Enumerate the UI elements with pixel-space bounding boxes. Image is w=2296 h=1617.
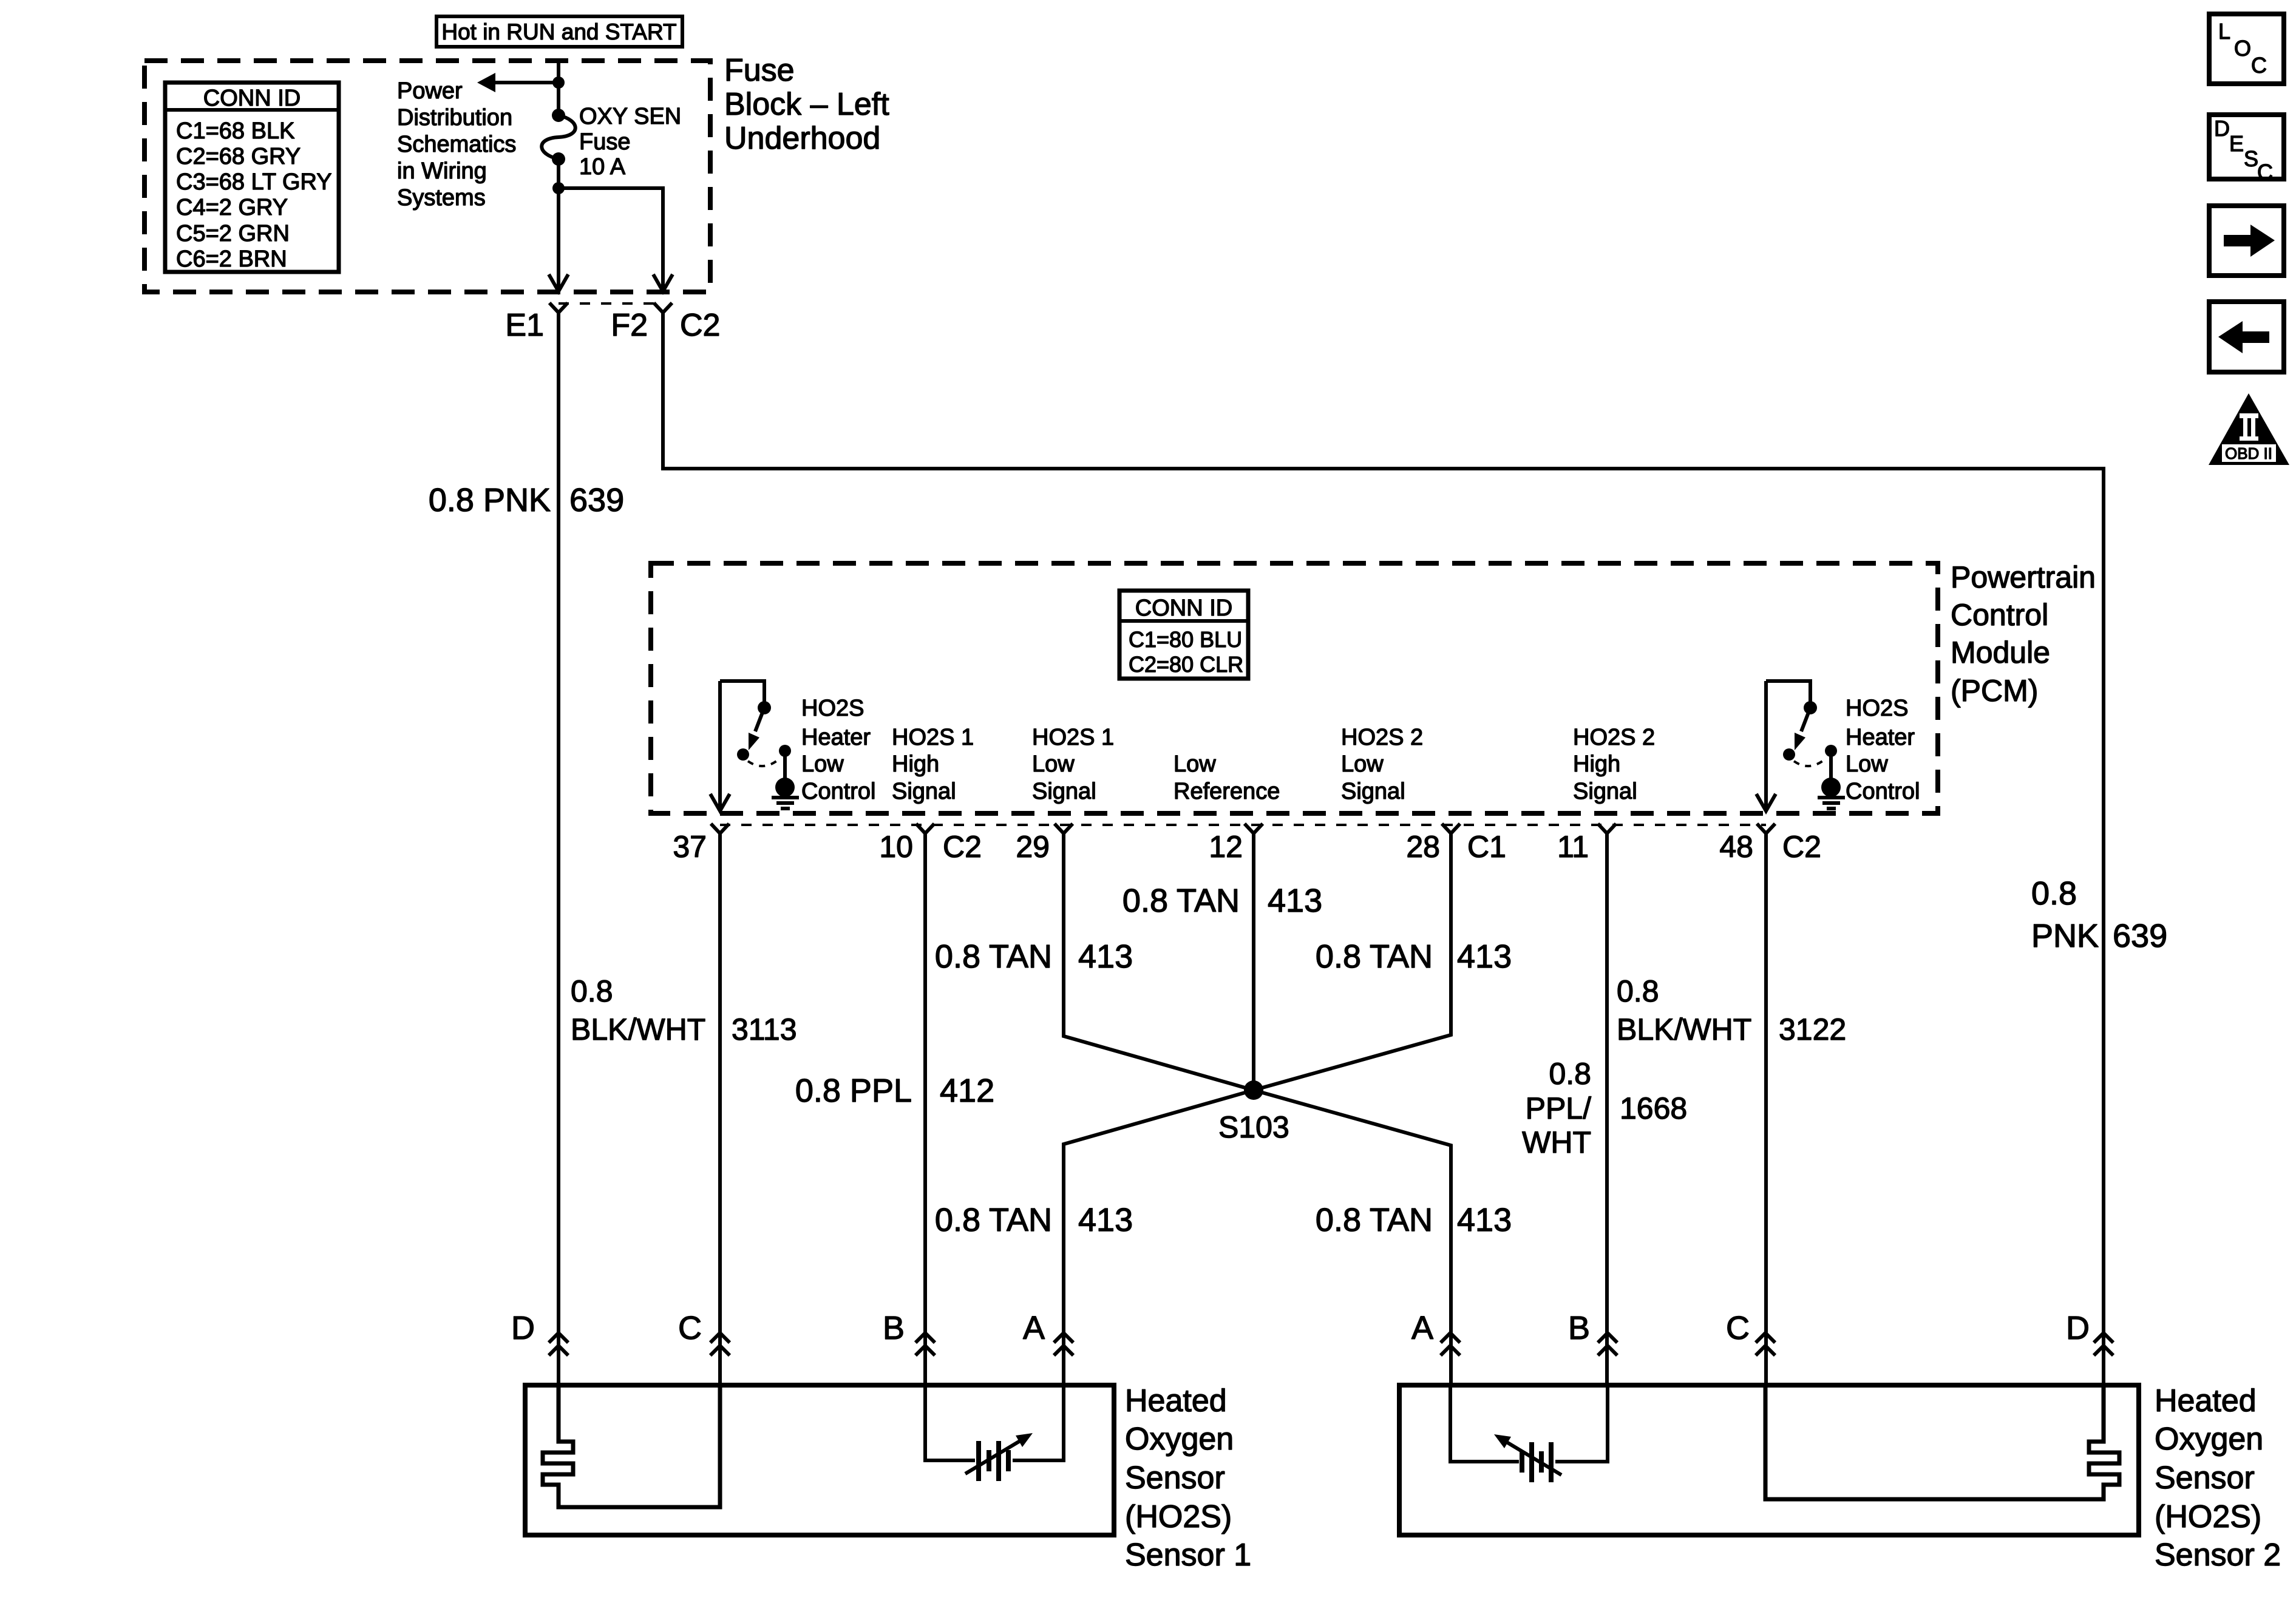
connector terminal pin 48 xyxy=(1757,824,1775,833)
wire: pin 10 down to sensor 1 pin B (0.8 PPL 412) xyxy=(923,833,927,1385)
left heater driver: top bracket xyxy=(720,681,764,703)
splice node S103 xyxy=(1244,1080,1263,1100)
arrowhead into F2 xyxy=(653,274,673,291)
svg-text:413: 413 xyxy=(1457,1202,1512,1238)
svg-text:PNK: PNK xyxy=(2031,918,2099,954)
svg-text:28: 28 xyxy=(1406,830,1440,864)
svg-text:B: B xyxy=(1568,1310,1590,1346)
svg-text:0.8 PPL: 0.8 PPL xyxy=(795,1073,912,1109)
svg-text:0.8 TAN: 0.8 TAN xyxy=(935,1202,1052,1238)
svg-text:413: 413 xyxy=(1078,938,1133,975)
svg-text:Fuse: Fuse xyxy=(579,129,630,155)
label: 0.8 PPL 412 xyxy=(795,1073,994,1109)
svg-text:Signal: Signal xyxy=(892,779,956,804)
svg-text:A: A xyxy=(1411,1310,1433,1346)
fuse OXY SEN element xyxy=(542,115,576,159)
svg-text:C1=80 BLU: C1=80 BLU xyxy=(1129,627,1242,652)
svg-text:0.8: 0.8 xyxy=(1549,1057,1591,1091)
svg-text:BLK/WHT: BLK/WHT xyxy=(1617,1012,1751,1046)
svg-text:Control: Control xyxy=(1846,779,1920,804)
wire: pin 29 down then diagonal to S103 xyxy=(1064,833,1254,1090)
svg-text:C2: C2 xyxy=(680,308,720,343)
label: 0.8 BLK/WHT 3122 xyxy=(1617,974,1846,1046)
PCM dashed box xyxy=(651,563,1938,813)
svg-text:C2=80 CLR: C2=80 CLR xyxy=(1129,652,1243,677)
svg-text:12: 12 xyxy=(1209,830,1243,864)
CONN ID table (fuse block) xyxy=(165,83,339,272)
label: 0.8 TAN 413 (pin 29) xyxy=(935,938,1133,975)
svg-text:10: 10 xyxy=(879,830,913,864)
left heater driver: output wire xyxy=(718,681,722,808)
left heater driver: travel arc (dashed) xyxy=(748,759,779,766)
icon: forward arrow box xyxy=(2209,206,2284,276)
svg-text:Low: Low xyxy=(1846,751,1888,777)
svg-text:C2: C2 xyxy=(943,830,982,864)
left heater driver: blade arrowhead xyxy=(749,733,759,750)
svg-text:Heated: Heated xyxy=(1125,1383,1227,1419)
svg-text:412: 412 xyxy=(940,1073,994,1109)
svg-text:0.8 TAN: 0.8 TAN xyxy=(935,938,1052,975)
svg-text:O: O xyxy=(2234,36,2251,61)
sensor 1 sense cell plates xyxy=(979,1441,1008,1481)
sensor 2 box xyxy=(1399,1385,2139,1535)
left heater driver: ground symbol xyxy=(772,798,799,808)
svg-text:Fuse: Fuse xyxy=(724,53,795,88)
left heater driver: ground stem xyxy=(783,751,787,779)
connector terminal E1 xyxy=(549,303,568,313)
svg-text:C: C xyxy=(2251,53,2267,78)
sensor 1 connector chevrons pin C xyxy=(710,1333,730,1355)
svg-text:48: 48 xyxy=(1719,830,1753,864)
label: Fuse Block - Left Underhood xyxy=(724,53,889,156)
connector terminal pin 29 xyxy=(1055,824,1073,833)
svg-text:C1=68 BLK: C1=68 BLK xyxy=(176,118,294,144)
right heater driver: blade arrowhead xyxy=(1795,733,1805,750)
svg-text:Distribution: Distribution xyxy=(397,105,512,131)
wire: tap to power distribution arrow xyxy=(493,81,559,84)
svg-text:Sensor 1: Sensor 1 xyxy=(1125,1537,1251,1573)
svg-text:Low: Low xyxy=(801,751,844,777)
sensor 2 sense cell leads xyxy=(1450,1385,1519,1462)
fuse block dashed box xyxy=(144,61,710,292)
svg-text:D: D xyxy=(2214,116,2230,141)
svg-text:L: L xyxy=(2218,19,2230,44)
sensor 2 variable arrow xyxy=(1507,1442,1561,1475)
left heater driver: ground contact node xyxy=(779,745,791,757)
svg-text:Schematics: Schematics xyxy=(397,132,516,157)
sensor 2 sense cell plates xyxy=(1522,1442,1551,1482)
wire: branch over to F2 terminal xyxy=(559,188,663,288)
fuse OXY SEN bottom terminal xyxy=(552,152,565,166)
svg-text:0.8 TAN: 0.8 TAN xyxy=(1316,938,1433,975)
svg-text:D: D xyxy=(2066,1310,2090,1346)
junction node at power distribution tap xyxy=(552,76,565,89)
pin label: HO2S 1 Low Signal xyxy=(1032,725,1114,804)
svg-text:PPL/: PPL/ xyxy=(1526,1091,1592,1125)
svg-text:29: 29 xyxy=(1016,830,1050,864)
svg-text:Powertrain: Powertrain xyxy=(1951,560,2096,594)
svg-text:B: B xyxy=(883,1310,905,1346)
label: 0.8 PNK 639 (right) xyxy=(2031,875,2167,954)
label: Heated Oxygen Sensor (HO2S) Sensor 2 xyxy=(2155,1383,2281,1573)
svg-text:Low: Low xyxy=(1173,751,1216,777)
svg-text:HO2S 1: HO2S 1 xyxy=(1032,725,1114,750)
connector terminal pin 10 xyxy=(916,824,934,833)
svg-text:OBD II: OBD II xyxy=(2225,444,2272,463)
right heater driver: open contact node xyxy=(1783,748,1795,761)
right heater driver: ground contact node xyxy=(1825,745,1837,757)
label: 0.8 PPL/ WHT 1668 xyxy=(1522,1057,1687,1159)
right heater driver: ground stem xyxy=(1829,751,1833,779)
right heater driver: ground ball xyxy=(1821,778,1841,797)
sensor 1 variable arrow xyxy=(965,1441,1020,1474)
connector line E1-F2 (dashed) xyxy=(559,302,663,305)
svg-text:C2: C2 xyxy=(1782,830,1821,864)
svg-text:413: 413 xyxy=(1078,1202,1133,1238)
svg-text:HO2S 1: HO2S 1 xyxy=(892,725,974,750)
pin label: HO2S 2 High Signal xyxy=(1573,725,1655,804)
svg-text:BLK/WHT: BLK/WHT xyxy=(571,1012,705,1046)
svg-text:Heated: Heated xyxy=(2155,1383,2257,1419)
connector terminal pin 37 xyxy=(711,824,729,833)
label: 0.8 TAN 413 (sensor 2 A) xyxy=(1316,1202,1512,1238)
label: Powertrain Control Module (PCM) xyxy=(1951,560,2096,708)
svg-text:Power: Power xyxy=(397,78,463,104)
sensor 1 connector chevrons pin B xyxy=(915,1333,935,1355)
svg-text:C: C xyxy=(2257,160,2273,185)
svg-text:Control: Control xyxy=(801,779,876,804)
label: OXY SEN Fuse 10 A xyxy=(579,104,681,180)
svg-text:Sensor: Sensor xyxy=(1125,1460,1225,1496)
left heater driver: open contact node xyxy=(737,748,749,761)
right heater driver: switch blade xyxy=(1801,708,1810,731)
svg-text:HO2S: HO2S xyxy=(801,696,864,721)
svg-text:Signal: Signal xyxy=(1341,779,1405,804)
arrowhead: to power distribution schematics xyxy=(477,73,495,92)
PCM connector line (dashed) xyxy=(720,824,1766,826)
left heater driver: switch blade xyxy=(755,708,764,731)
svg-text:37: 37 xyxy=(673,830,707,864)
connector terminal pin 11 xyxy=(1598,824,1616,833)
svg-text:413: 413 xyxy=(1457,938,1512,975)
svg-text:C3=68 LT GRY: C3=68 LT GRY xyxy=(176,169,332,195)
wire: pin 48 down to sensor 2 pin C (0.8 BLK/WHT 3122) xyxy=(1764,833,1768,1385)
left heater driver: top contact node xyxy=(758,701,771,714)
sensor 2 connector chevrons pin A xyxy=(1441,1333,1460,1355)
pin label: HO2S Heater Low Control (right) xyxy=(1846,696,1920,804)
icon: back arrow box xyxy=(2209,302,2284,372)
svg-text:Signal: Signal xyxy=(1573,779,1637,804)
svg-text:0.8 TAN: 0.8 TAN xyxy=(1123,883,1240,919)
wire: C2 branch across top and down to sensor 2 pin D xyxy=(663,313,2104,1385)
svg-text:C: C xyxy=(1726,1310,1750,1346)
svg-text:0.8 TAN: 0.8 TAN xyxy=(1316,1202,1433,1238)
note: Power Distribution Schematics in Wiring Systems xyxy=(397,78,516,211)
svg-text:1668: 1668 xyxy=(1620,1091,1687,1125)
sensor 2 heater element and return to pin C xyxy=(1765,1385,2119,1499)
svg-text:C4=2 GRY: C4=2 GRY xyxy=(176,195,288,220)
svg-text:Hot in RUN and START: Hot in RUN and START xyxy=(441,19,676,44)
sensor 1 sense cell leads xyxy=(925,1385,975,1460)
icon: LOC box xyxy=(2209,14,2284,84)
svg-text:HO2S: HO2S xyxy=(1846,696,1908,721)
connector terminal pin 12 xyxy=(1245,824,1263,833)
svg-text:High: High xyxy=(892,751,939,777)
svg-text:S103: S103 xyxy=(1218,1110,1289,1144)
fuse OXY SEN top terminal xyxy=(552,109,565,122)
svg-text:3122: 3122 xyxy=(1779,1012,1846,1046)
connector terminal pin 28 xyxy=(1442,824,1460,833)
svg-text:Systems: Systems xyxy=(397,185,486,211)
pin label: HO2S 1 High Signal xyxy=(892,725,974,804)
junction node at F2 branch xyxy=(552,182,565,194)
svg-text:11: 11 xyxy=(1557,830,1589,864)
label: 0.8 TAN 413 (pin 12) xyxy=(1123,883,1322,919)
svg-text:Sensor: Sensor xyxy=(2155,1460,2255,1496)
wire: fuse output down to E1 xyxy=(557,159,560,288)
sensor 1 box xyxy=(525,1385,1114,1535)
svg-text:S: S xyxy=(2244,146,2258,171)
icon: OBD II triangle xyxy=(2209,393,2289,465)
sensor 2 connector chevrons pin B xyxy=(1598,1333,1617,1355)
pin label: HO2S Heater Low Control (left) xyxy=(801,696,876,804)
svg-text:0.8: 0.8 xyxy=(1617,974,1659,1008)
connector terminal F2/C2 xyxy=(654,303,672,313)
svg-text:C5=2 GRN: C5=2 GRN xyxy=(176,221,290,246)
svg-text:639: 639 xyxy=(2113,918,2167,954)
svg-text:A: A xyxy=(1023,1310,1045,1346)
wire: pin 28 down then diagonal to S103 xyxy=(1254,833,1451,1090)
svg-text:Control: Control xyxy=(1951,598,2048,632)
svg-text:Oxygen: Oxygen xyxy=(1125,1422,1234,1457)
svg-text:F2: F2 xyxy=(611,308,648,343)
svg-text:Low: Low xyxy=(1341,751,1384,777)
right heater driver: travel arc (dashed) xyxy=(1794,759,1826,766)
svg-text:639: 639 xyxy=(569,482,624,518)
icon: DESC box xyxy=(2209,115,2284,185)
svg-text:D: D xyxy=(511,1310,535,1346)
svg-text:Module: Module xyxy=(1951,636,2050,670)
svg-text:Heater: Heater xyxy=(1846,725,1915,750)
right heater driver: ground symbol xyxy=(1818,798,1845,808)
svg-text:E: E xyxy=(2229,131,2244,156)
svg-text:0.8: 0.8 xyxy=(571,974,613,1008)
svg-text:C2=68 GRY: C2=68 GRY xyxy=(176,144,301,169)
svg-text:High: High xyxy=(1573,751,1620,777)
svg-text:(HO2S): (HO2S) xyxy=(2155,1499,2261,1534)
right heater driver: arrowhead to pin 48 xyxy=(1756,794,1776,811)
wire: pin 11 down to sensor 2 pin B (0.8 PPL/WHT 1668) xyxy=(1605,833,1609,1385)
wire: hot feed from top into fuse xyxy=(557,61,560,115)
svg-text:0.8 PNK: 0.8 PNK xyxy=(429,482,551,518)
right heater driver: output wire xyxy=(1764,681,1768,808)
svg-text:413: 413 xyxy=(1268,883,1322,919)
svg-text:Sensor 2: Sensor 2 xyxy=(2155,1537,2281,1573)
svg-text:Block – Left: Block – Left xyxy=(724,87,889,122)
svg-text:E1: E1 xyxy=(505,308,544,343)
svg-text:Underhood: Underhood xyxy=(724,121,880,156)
left heater driver: ground ball xyxy=(775,778,795,797)
banner: Hot in RUN and START xyxy=(436,16,682,47)
left heater driver: arrowhead to pin 37 xyxy=(710,794,730,811)
svg-text:Low: Low xyxy=(1032,751,1075,777)
svg-text:0.8: 0.8 xyxy=(2031,875,2077,912)
wire: pin 12 down to S103 (0.8 TAN 413) xyxy=(1252,833,1255,1090)
label: 0.8 TAN 413 (pin 28) xyxy=(1316,938,1512,975)
wire: S103 diagonal down-right then down to sensor 2 pin A xyxy=(1254,1090,1451,1385)
svg-text:WHT: WHT xyxy=(1522,1125,1591,1159)
svg-text:HO2S 2: HO2S 2 xyxy=(1573,725,1655,750)
CONN ID table (PCM) xyxy=(1119,591,1248,679)
svg-text:HO2S 2: HO2S 2 xyxy=(1341,725,1423,750)
svg-text:Reference: Reference xyxy=(1173,779,1280,804)
svg-text:OXY SEN: OXY SEN xyxy=(579,104,681,129)
sensor 1 heater element and return to pin C xyxy=(543,1385,720,1507)
label: 0.8 PNK 639 xyxy=(429,482,624,518)
svg-text:(PCM): (PCM) xyxy=(1951,674,2038,708)
pin label: HO2S 2 Low Signal xyxy=(1341,725,1423,804)
svg-text:CONN ID: CONN ID xyxy=(203,86,301,111)
svg-text:C6=2 BRN: C6=2 BRN xyxy=(176,246,287,272)
label: 0.8 TAN 413 (sensor 1 A) xyxy=(935,1202,1133,1238)
svg-text:3113: 3113 xyxy=(732,1012,797,1046)
svg-text:Oxygen: Oxygen xyxy=(2155,1422,2263,1457)
svg-text:CONN ID: CONN ID xyxy=(1135,595,1232,621)
svg-text:(HO2S): (HO2S) xyxy=(1125,1499,1232,1534)
sensor 1 connector chevrons pin D xyxy=(549,1333,568,1355)
svg-text:Signal: Signal xyxy=(1032,779,1096,804)
svg-text:in Wiring: in Wiring xyxy=(397,158,487,184)
svg-text:C1: C1 xyxy=(1467,830,1506,864)
arrowhead into E1 xyxy=(549,274,568,291)
wire: E1 down to HO2S sensor 1 pin D (0.8 PNK 639) xyxy=(557,313,560,1385)
wire: S103 diagonal down-left then down to sensor 1 pin A xyxy=(1064,1090,1254,1385)
svg-text:Heater: Heater xyxy=(801,725,871,750)
label: Heated Oxygen Sensor (HO2S) Sensor 1 xyxy=(1125,1383,1251,1573)
right heater driver: top bracket xyxy=(1766,681,1810,703)
label: 0.8 BLK/WHT 3113 xyxy=(571,974,797,1046)
sensor 2 connector chevrons pin D xyxy=(2094,1333,2113,1355)
right heater driver: top contact node xyxy=(1804,701,1817,714)
wire: pin 37 down to sensor 1 pin C (0.8 BLK/WHT 3113) xyxy=(718,833,722,1385)
sensor 1 connector chevrons pin A xyxy=(1054,1333,1073,1355)
sensor 2 connector chevrons pin C xyxy=(1756,1333,1775,1355)
svg-text:10 A: 10 A xyxy=(579,154,626,180)
svg-text:C: C xyxy=(678,1310,702,1346)
pin label: Low Reference xyxy=(1173,751,1280,804)
